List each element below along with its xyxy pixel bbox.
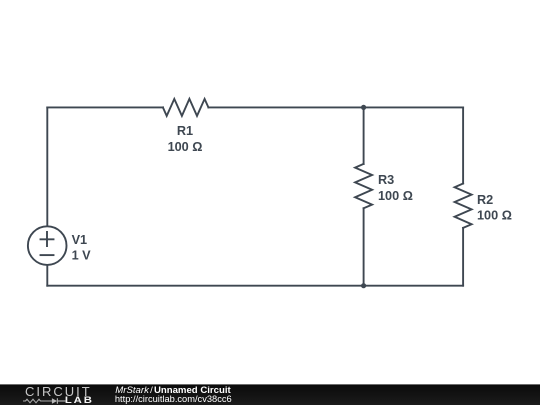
V1 plus sign [41, 232, 54, 246]
svg-text:R2: R2 [477, 193, 493, 207]
svg-text:R3: R3 [378, 173, 394, 187]
resistor R3 [355, 164, 372, 208]
svg-text:http://circuitlab.com/cv38cc6: http://circuitlab.com/cv38cc6 [115, 394, 232, 404]
svg-text:100 Ω: 100 Ω [168, 140, 203, 154]
svg-text:100 Ω: 100 Ω [378, 189, 413, 203]
wire R3 top vertical [363, 107, 365, 163]
wire R2 bottom vertical [462, 228, 464, 286]
logo diode [52, 398, 57, 404]
wire left vertical [46, 107, 48, 225]
wire top-left horizontal [47, 106, 163, 108]
svg-text:V1: V1 [72, 233, 88, 247]
resistor R1 [163, 99, 209, 116]
svg-text:LAB: LAB [65, 396, 94, 405]
V1 minus sign [41, 254, 54, 256]
svg-text:100 Ω: 100 Ω [477, 209, 512, 223]
wire R2 top vertical [462, 107, 464, 183]
svg-text:1 V: 1 V [72, 248, 92, 262]
resistor R2 [455, 184, 472, 228]
wire R3 bottom vertical [363, 208, 365, 285]
voltage source V1 [28, 226, 67, 265]
node junction bottom [361, 283, 366, 288]
node junction top [361, 105, 366, 110]
wire top-right horizontal [208, 106, 463, 108]
wire below V1 [46, 266, 48, 286]
logo resistor zigzag [23, 399, 52, 403]
svg-text:R1: R1 [177, 124, 193, 138]
wire bottom horizontal [47, 285, 463, 287]
footer bar [0, 384, 540, 405]
